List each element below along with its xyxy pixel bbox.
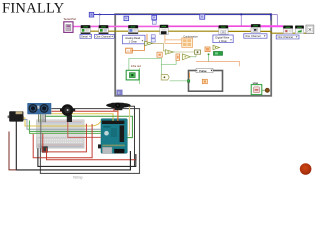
- boolean control infra red: [126, 70, 139, 80]
- wire red bottom right: [47, 148, 137, 160]
- dropdown Analog Read 1 Chan: [123, 35, 146, 44]
- wire dark red D: [9, 132, 16, 170]
- blue terminal square C: [152, 15, 157, 19]
- wire red sensor arc: [52, 111, 119, 121]
- wire servo black: [124, 106, 135, 166]
- wire red box R2: [33, 124, 92, 158]
- node box: [195, 50, 201, 54]
- svg-text:infra red: infra red: [131, 64, 141, 68]
- blue channel square F: [151, 35, 155, 38]
- wire red buzzer to arduino: [68, 115, 101, 137]
- dropdown Digital Write 1 Chan: [213, 35, 233, 43]
- combination array constant: [182, 38, 193, 47]
- comparison triangle 3: [182, 54, 190, 60]
- wire servo signal: [117, 109, 119, 121]
- servo: [106, 103, 131, 110]
- wire green A: [29, 121, 101, 132]
- wire: pink LINX resource: [73, 26, 81, 28]
- icon LINX Open Serial I1: [81, 25, 91, 34]
- wire yellow motor to arduino: [23, 118, 101, 126]
- wire: lavender resource top right: [241, 15, 277, 27]
- red dot decoration: [300, 163, 312, 175]
- blue terminal square A: [89, 12, 93, 17]
- blue terminal square D: [152, 21, 156, 25]
- serial port VISA control: [64, 22, 73, 33]
- wires orange to combination: [165, 35, 182, 44]
- wire yellow sensor: [45, 114, 113, 121]
- blue terminal square B: [124, 16, 129, 20]
- orange constant tall 3: [176, 54, 180, 60]
- orange wait icon: [205, 47, 210, 52]
- blue channel square G: [151, 39, 155, 42]
- while loop: [115, 14, 271, 96]
- buzzer: [60, 104, 75, 122]
- wire olive cmp2 out: [174, 51, 195, 53]
- icon LINX Servo I4: [160, 25, 168, 35]
- case structure: [189, 71, 223, 92]
- motor: [8, 111, 24, 121]
- wire: gray drop to icon2: [99, 15, 101, 26]
- selector pentagon node: [161, 75, 169, 80]
- wire yellow servo: [126, 104, 130, 135]
- icon LINX Analog Read I3: [128, 25, 138, 34]
- wire gray bus: [23, 120, 101, 130]
- icon LINX I2: [99, 25, 109, 34]
- conditional terminal: [265, 88, 269, 92]
- green wire IR net: [129, 58, 189, 84]
- svg-text:FINALLY: FINALLY: [2, 1, 65, 17]
- wire green sensor: [45, 116, 132, 137]
- wire olive cmp1 to cmp2: [153, 43, 166, 51]
- wire red box R1: [43, 124, 87, 152]
- wire black B1: [16, 117, 130, 170]
- loop iteration terminal i: [117, 90, 122, 95]
- comparison triangle 1: [145, 41, 153, 46]
- icon LINX I6: [251, 24, 260, 32]
- dropdown Serial: [80, 34, 92, 38]
- breadboard: [36, 120, 84, 148]
- wire orange from analog read down: [146, 34, 148, 43]
- wire green cmp3 out: [190, 54, 196, 56]
- wire servo red stub: [113, 109, 115, 112]
- dropdown One Channel: [95, 34, 115, 38]
- boolean stop control: [251, 85, 262, 95]
- wire green B: [30, 121, 101, 134]
- comparison triangle 2: [165, 50, 173, 55]
- case green tunnel: [187, 80, 189, 82]
- icon LINX Digital Write I5: [219, 25, 229, 34]
- dropdown shadows: [81, 38, 115, 40]
- icon LINX Close I8: [295, 26, 304, 34]
- wire gray pin down: [40, 122, 42, 152]
- boolean True constant: [214, 52, 223, 56]
- icon close ref I9: [306, 25, 314, 33]
- breadboard chip: [42, 146, 48, 152]
- orange wire long right: [196, 62, 240, 67]
- case orange tunnel wire: [188, 73, 190, 79]
- svg-text:False: False: [199, 69, 207, 73]
- svg-text:Serial Port: Serial Port: [64, 17, 77, 21]
- wire orange const to cmp: [132, 45, 144, 51]
- blue terminal square E: [200, 14, 205, 19]
- wire: blue boolean along loop top: [94, 15, 271, 21]
- wire black B2: [38, 148, 136, 166]
- Arduino Uno: [98, 119, 127, 154]
- wire gray big loop: [40, 109, 139, 174]
- comparison triangle 4: [213, 45, 220, 49]
- case inner orange box: [202, 79, 207, 83]
- case selector label False: [196, 68, 213, 73]
- svg-text:fritzing: fritzing: [73, 175, 83, 179]
- orange constant small 2: [157, 52, 162, 57]
- wire: olive error: [90, 31, 306, 33]
- ultrasonic sensor: [27, 103, 51, 122]
- green junction dot: [208, 54, 210, 56]
- orange constant 1: [126, 48, 133, 53]
- svg-text:i: i: [118, 91, 119, 95]
- icon LINX I7: [283, 26, 293, 34]
- green wire down: [208, 55, 210, 62]
- dropdown One Channel 3: [276, 35, 299, 39]
- dropdown One Channel 2: [244, 34, 267, 38]
